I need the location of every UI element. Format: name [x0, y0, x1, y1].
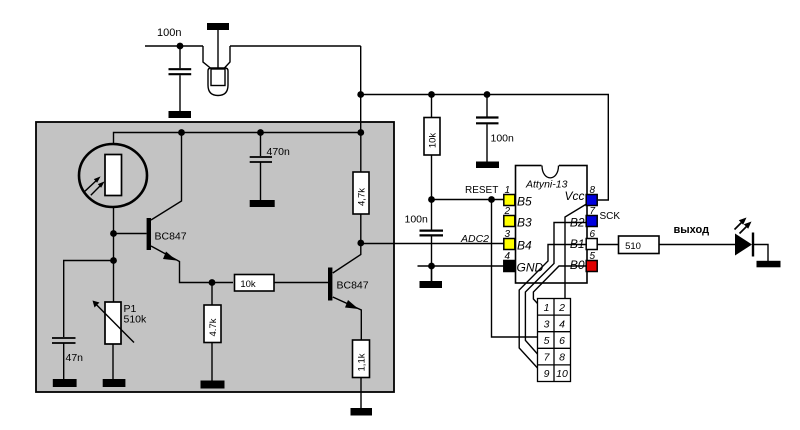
wire mid 4.7k bottom — [211, 343, 213, 381]
sensor capsule inner element — [211, 69, 225, 86]
svg-text:RESET: RESET — [465, 185, 498, 196]
svg-text:4.7k: 4.7k — [208, 318, 219, 336]
LED arrow 1 — [735, 222, 743, 230]
wire Q2 collector — [333, 243, 361, 273]
LED cathode bar — [752, 233, 754, 257]
node vcc rail left — [357, 91, 364, 98]
svg-text:4: 4 — [559, 319, 565, 331]
svg-text:10k: 10k — [240, 279, 256, 290]
svg-text:B0: B0 — [570, 258, 585, 272]
resistor right 4.7k — [353, 172, 369, 214]
svg-text:B1: B1 — [570, 237, 585, 251]
ground below P1 — [103, 379, 126, 387]
svg-text:B2: B2 — [570, 216, 585, 230]
wire Q1 emitter to 10k — [151, 246, 233, 283]
wire C3 bottom lead — [486, 124, 488, 161]
node 10k top — [428, 91, 435, 98]
pin 2 square B3 — [504, 216, 515, 227]
pin 1 square B5 — [504, 195, 515, 206]
svg-text:1,1k: 1,1k — [357, 353, 368, 371]
svg-text:5: 5 — [544, 335, 550, 347]
svg-text:100n: 100n — [157, 27, 181, 39]
node 4.7k rail — [357, 129, 364, 136]
photoresistor LDR circle — [79, 144, 147, 207]
svg-text:BC847: BC847 — [337, 280, 369, 292]
wire box top rail — [114, 133, 361, 145]
wire SCK to connector pin2 — [565, 204, 587, 299]
wire 4.7k right top lead — [360, 133, 362, 173]
potentiometer P1 body — [105, 302, 121, 344]
node RESET connector — [488, 196, 495, 203]
svg-text:B3: B3 — [517, 216, 532, 230]
pin 7 square SCK — [586, 216, 597, 227]
LED arrow 2 — [740, 226, 748, 234]
wire B1 out to 510 — [598, 244, 619, 246]
node top-left cap — [177, 43, 184, 50]
ground below C4 — [420, 281, 443, 288]
svg-text:47n: 47n — [66, 352, 84, 364]
photoresistor arrow 1 — [85, 179, 98, 191]
svg-text:8: 8 — [559, 352, 565, 364]
svg-text:4,7k: 4,7k — [357, 188, 368, 206]
IC notch arc — [542, 166, 559, 178]
resistor 10k horizontal — [235, 275, 275, 292]
svg-text:9: 9 — [544, 368, 550, 380]
svg-text:2: 2 — [504, 206, 511, 217]
transistor Q1 bar — [147, 218, 151, 250]
svg-text:Vcc: Vcc — [564, 189, 584, 203]
wire C1 bottom lead — [179, 75, 181, 111]
svg-text:1: 1 — [505, 185, 511, 196]
wire capsule center to ground — [217, 30, 219, 70]
wire Q1 collector — [151, 133, 182, 221]
wire top rail right of capsule — [230, 45, 361, 47]
wire GND stub to ground — [431, 266, 433, 281]
wire B2 to connector pin7 — [525, 223, 586, 355]
wire RESET — [432, 199, 505, 201]
IC notch erase — [542, 164, 560, 167]
capacitor C4 100n plates — [420, 231, 444, 236]
wire LDR bottom vertical — [113, 207, 115, 302]
ground below 47n — [53, 379, 77, 387]
wire GND rail — [418, 265, 505, 267]
wire B1 to connector pin9 — [519, 245, 586, 369]
wire Q2 emitter — [333, 297, 362, 340]
ground above sensor capsule — [207, 23, 229, 30]
wire 47n to ground — [63, 344, 65, 380]
connector cell numbers — [544, 302, 568, 380]
pin 6 square B1 — [586, 239, 597, 250]
svg-text:8: 8 — [590, 185, 596, 196]
sensor capsule body — [208, 68, 228, 96]
ground below 470n — [250, 200, 275, 207]
wire 4.7k right bottom lead — [360, 214, 362, 243]
svg-text:2: 2 — [558, 302, 565, 314]
ground below mid 4.7k — [201, 381, 225, 389]
node RESET 10k — [428, 196, 435, 203]
pin 5 square B0 — [586, 261, 597, 272]
resistor 1.1k — [353, 340, 370, 378]
resistor 10k pullup — [424, 118, 440, 156]
capacitor C1 100n plates — [169, 69, 192, 74]
wire C4 bottom to gnd rail — [431, 236, 433, 281]
wire LED cathode to ground — [754, 245, 768, 262]
wire Q1 base — [114, 233, 147, 235]
wire 47n branch — [64, 261, 114, 338]
capacitor 470n plates — [250, 157, 272, 162]
IC U1 Attyni-13 body — [516, 166, 588, 284]
wire 510 to LED — [659, 244, 736, 246]
wire top-left supply — [145, 45, 203, 47]
node 470n rail — [257, 129, 264, 136]
wire capsule left lead — [203, 46, 211, 69]
pin 4 square GND — [504, 261, 515, 272]
svg-text:10k: 10k — [428, 133, 439, 149]
LED D1 triangle — [735, 234, 752, 256]
potentiometer P1 arrow — [97, 305, 135, 343]
node mid 4.7k top — [209, 279, 216, 286]
transistor Q1 emitter arrow — [163, 252, 177, 261]
wire 10k pullup bottom to reset — [431, 155, 433, 230]
ISP connector 2x5 grid — [538, 299, 571, 382]
svg-text:100n: 100n — [491, 133, 515, 145]
node 47n branch — [110, 257, 117, 264]
transistor Q2 bar — [328, 268, 332, 301]
svg-text:1: 1 — [544, 302, 550, 314]
svg-text:510: 510 — [625, 241, 641, 252]
wire 470n bottom lead — [260, 163, 262, 201]
svg-text:510k: 510k — [124, 314, 148, 326]
ground above C1 — [169, 111, 192, 118]
wire 470n top lead — [260, 133, 262, 157]
resistor mid 4.7k — [204, 305, 221, 343]
wire C3 top lead — [486, 95, 488, 117]
svg-text:Attyni-13: Attyni-13 — [525, 179, 568, 191]
pin 3 square B4 — [504, 239, 515, 250]
wire RESET to connector pin5 — [492, 200, 538, 338]
pin 8 square Vcc — [586, 195, 597, 206]
wire 1.1k to ground — [360, 378, 362, 409]
ground below LED — [757, 261, 781, 268]
svg-text:10: 10 — [556, 368, 568, 380]
svg-text:6: 6 — [559, 335, 565, 347]
amplifier block background box — [36, 122, 394, 392]
svg-text:B4: B4 — [517, 239, 532, 253]
wire vertical drop into box — [360, 46, 362, 133]
wire P1 to ground — [112, 344, 114, 380]
node Q2 collector — [357, 240, 364, 247]
wire B0 to connector pin1 — [533, 266, 586, 304]
wire mid 4.7k top — [211, 283, 213, 306]
node Q1 collector rail — [178, 129, 185, 136]
svg-text:100n: 100n — [405, 214, 429, 226]
transistor Q2 emitter arrow — [345, 300, 359, 309]
wire Vcc rail — [361, 95, 609, 201]
wire 10k pullup top — [431, 95, 433, 118]
svg-text:4: 4 — [505, 251, 511, 262]
svg-text:6: 6 — [590, 229, 596, 240]
svg-text:470n: 470n — [267, 146, 291, 158]
photoresistor element — [105, 155, 122, 196]
svg-text:3: 3 — [505, 229, 511, 240]
svg-text:5: 5 — [590, 251, 596, 262]
svg-text:BC847: BC847 — [155, 231, 187, 243]
wire ADC2 — [361, 243, 504, 245]
wire capsule right lead — [224, 46, 230, 69]
svg-text:7: 7 — [590, 206, 596, 217]
svg-text:выход: выход — [674, 224, 710, 236]
node Q1 base — [110, 230, 117, 237]
wire 10k to Q2 base — [274, 282, 329, 284]
svg-text:3: 3 — [544, 319, 550, 331]
svg-text:B5: B5 — [517, 195, 532, 209]
capacitor C3 100n plates — [476, 118, 499, 124]
node C3 top — [484, 91, 491, 98]
ground below 1.1k — [351, 408, 373, 416]
node GND rail — [428, 263, 435, 270]
svg-text:SCK: SCK — [600, 211, 621, 222]
photoresistor arrow 2 — [91, 184, 102, 195]
svg-text:GND: GND — [517, 261, 544, 275]
capacitor 47n plates — [52, 338, 76, 343]
ground below C3 — [476, 162, 499, 169]
svg-text:ADC2: ADC2 — [460, 233, 489, 245]
resistor 510 — [619, 236, 660, 254]
wire C1 top lead — [179, 46, 181, 68]
